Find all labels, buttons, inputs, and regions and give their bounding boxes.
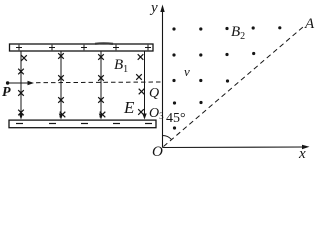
- arrowhead line 4: [142, 114, 146, 120]
- B2 dots column 2: [199, 27, 202, 104]
- y-axis arrowhead: [160, 5, 164, 13]
- B1 crosses column 1: [18, 55, 27, 115]
- B1 crosses column 3: [98, 54, 105, 117]
- E field line 1: [20, 51, 22, 116]
- label x: [299, 146, 306, 163]
- y-axis: [162, 9, 164, 148]
- x-axis: [163, 146, 306, 149]
- label P: [2, 85, 11, 101]
- arrowhead line 1: [19, 114, 23, 120]
- E field line 4: [144, 51, 146, 116]
- B2 dots column 4: [252, 26, 256, 55]
- x-axis arrowhead: [302, 145, 310, 149]
- dashed line OA at 45 deg: [164, 27, 304, 147]
- label v: [184, 64, 190, 80]
- plus signs on top plate: [16, 45, 151, 50]
- arrowhead line 3: [99, 114, 103, 120]
- velocity arrow at P: [8, 82, 29, 84]
- E field line 2: [60, 51, 62, 116]
- B2 dots column 3: [225, 27, 229, 83]
- label Q: [149, 86, 159, 102]
- label E: [124, 98, 134, 118]
- label 45deg: [166, 111, 186, 127]
- minus signs on bottom plate: [16, 123, 152, 125]
- particle P entry dot: [6, 81, 9, 84]
- label B1: [114, 57, 128, 75]
- bottom plate (negative): [9, 120, 156, 128]
- label B2: [231, 24, 245, 42]
- scan smudge on top plate edge: [95, 42, 113, 45]
- B2 dots column 5: [278, 26, 281, 29]
- label O: [152, 144, 163, 161]
- E field line 3: [100, 51, 102, 116]
- B1 crosses column 2: [58, 53, 65, 117]
- label y: [151, 0, 158, 17]
- label A: [305, 16, 314, 33]
- dashed trajectory through capacitor: [36, 81, 162, 84]
- 45 degree arc at O: [163, 135, 172, 139]
- B2 dots column 1: [172, 27, 176, 129]
- label O3: [149, 106, 164, 122]
- arrowhead line 2: [59, 114, 63, 120]
- B1 crosses column 4: [136, 54, 144, 115]
- top plate (positive): [10, 44, 154, 51]
